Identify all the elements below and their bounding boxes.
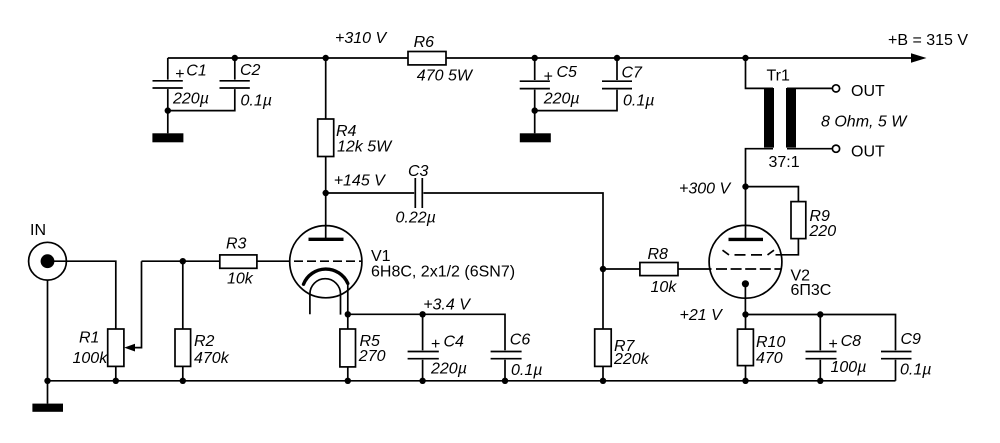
V2 beam plates / screen xyxy=(723,250,775,255)
capacitor C4 xyxy=(408,314,467,381)
capacitor C9 xyxy=(881,331,931,381)
resistor R5 xyxy=(340,329,386,367)
svg-text:10k: 10k xyxy=(651,279,678,296)
svg-text:8 Ohm, 5 W: 8 Ohm, 5 W xyxy=(821,114,908,131)
node OUT terminal bottom xyxy=(832,144,885,161)
node C6 rail junction xyxy=(502,378,508,384)
V1 plate xyxy=(309,238,344,241)
svg-text:OUT: OUT xyxy=(851,144,885,161)
svg-text:0.1µ: 0.1µ xyxy=(511,362,542,379)
capacitor C3 xyxy=(396,163,436,227)
transformer Tr1 xyxy=(764,67,800,171)
svg-text:+: + xyxy=(543,68,552,85)
wire rail to R4 xyxy=(325,58,327,119)
node +310 junction xyxy=(323,55,329,61)
wire R5 to bottom rail xyxy=(347,367,349,381)
node C8 junction xyxy=(817,311,823,317)
net 8 Ohm, 5 W xyxy=(821,114,908,131)
node C1/C2 junction xyxy=(165,107,171,113)
wire IN to bottom rail xyxy=(47,280,49,381)
resistor R3 xyxy=(220,235,257,287)
svg-text:+145 V: +145 V xyxy=(334,173,386,190)
wire cathode node to R5 xyxy=(347,314,349,329)
net +310 V xyxy=(335,30,387,47)
ground under C1 xyxy=(152,133,183,142)
svg-text:+B = 315 V: +B = 315 V xyxy=(888,32,968,49)
node V1 cathode junction xyxy=(345,297,472,318)
node +21 V xyxy=(680,307,749,324)
wire Tr1 secondary bottom to OUT xyxy=(787,148,832,150)
svg-text:R3: R3 xyxy=(226,235,247,252)
V1 heater xyxy=(310,279,341,315)
wire R9 to screen grid xyxy=(776,239,799,255)
wire grid node to V2 grid xyxy=(603,268,712,270)
resistor R9 xyxy=(791,202,836,240)
wire cathode node to C4/C6 xyxy=(348,314,505,350)
wire C5 to ground xyxy=(534,111,536,134)
svg-text:C6: C6 xyxy=(510,331,531,348)
wire V1 cathode lead xyxy=(347,283,349,314)
capacitor C2 xyxy=(168,55,272,111)
wire +300 node to V2 plate xyxy=(745,187,747,238)
wire R2 to bottom rail xyxy=(182,366,184,380)
wire grid node to R7 xyxy=(602,269,604,329)
svg-text:470 5W: 470 5W xyxy=(417,68,474,85)
wire wiper to R2 node xyxy=(142,260,183,262)
svg-text:C4: C4 xyxy=(444,333,465,350)
wire R7 to bottom rail xyxy=(602,366,604,380)
wire +21 node to R10 xyxy=(745,315,747,330)
tube V2 xyxy=(709,225,831,299)
node C8 rail junction xyxy=(817,378,823,384)
svg-text:220k: 220k xyxy=(613,351,650,368)
wire +300 node to R9 xyxy=(746,187,799,202)
svg-text:220: 220 xyxy=(808,223,836,240)
svg-text:+300 V: +300 V xyxy=(679,181,731,198)
svg-text:0.22µ: 0.22µ xyxy=(396,210,436,227)
svg-text:470: 470 xyxy=(756,350,783,367)
svg-text:+3.4 V: +3.4 V xyxy=(423,297,471,314)
svg-text:0.1µ: 0.1µ xyxy=(241,93,272,110)
svg-text:C2: C2 xyxy=(240,62,261,79)
wire top B+ rail xyxy=(168,57,912,59)
svg-text:V1: V1 xyxy=(371,248,391,265)
svg-text:+21 V: +21 V xyxy=(680,307,724,324)
node IN rail junction xyxy=(44,378,50,384)
potentiometer R1 xyxy=(73,329,124,367)
wire Tr1 secondary top to OUT xyxy=(787,87,832,89)
node R1 rail junction xyxy=(113,378,119,384)
node R2/R3 junction xyxy=(180,258,186,264)
node C4 rail junction xyxy=(419,378,425,384)
svg-text:C3: C3 xyxy=(408,163,429,180)
node +300 V xyxy=(679,181,749,198)
capacitor C5 xyxy=(520,55,580,111)
V1 grid (dashed) xyxy=(294,260,362,262)
svg-text:220µ: 220µ xyxy=(172,90,209,107)
node +145 V xyxy=(323,173,387,197)
V1 cathode arc xyxy=(304,269,348,284)
svg-text:10k: 10k xyxy=(227,270,254,287)
ground under C5 xyxy=(520,133,551,142)
connector IN xyxy=(29,222,67,280)
V2 plate xyxy=(729,238,764,241)
wire V2 cathode to +21 node xyxy=(744,284,746,315)
svg-text:R6: R6 xyxy=(414,34,435,51)
resistor R8 xyxy=(640,246,678,296)
svg-text:100µ: 100µ xyxy=(831,359,867,376)
svg-text:C7: C7 xyxy=(622,65,644,82)
wire bottom ground rail xyxy=(48,380,896,382)
svg-text:+310 V: +310 V xyxy=(335,30,387,47)
svg-text:+: + xyxy=(431,336,440,353)
tube V1 xyxy=(290,226,515,298)
node C4 junction xyxy=(419,311,425,317)
capacitor C7 xyxy=(535,55,655,111)
svg-text:100k: 100k xyxy=(73,350,109,367)
svg-text:IN: IN xyxy=(30,222,46,239)
capacitor C1 xyxy=(153,58,209,111)
svg-text:R4: R4 xyxy=(336,123,357,140)
node OUT terminal top xyxy=(832,83,885,100)
svg-text:220µ: 220µ xyxy=(430,360,467,377)
svg-text:C9: C9 xyxy=(901,331,922,348)
svg-text:OUT: OUT xyxy=(851,83,885,100)
svg-text:C5: C5 xyxy=(557,64,578,81)
node B+ arrow xyxy=(911,53,927,62)
capacitor C6 xyxy=(491,331,543,381)
svg-text:6H8C, 2x1/2 (6SN7): 6H8C, 2x1/2 (6SN7) xyxy=(371,264,515,281)
capacitor C8 xyxy=(806,315,867,381)
node C3/R7/R8 junction xyxy=(600,266,606,272)
svg-text:R2: R2 xyxy=(194,333,215,350)
svg-text:R10: R10 xyxy=(756,334,785,351)
wire rail to Tr1 primary top xyxy=(746,58,774,88)
wire C3 net: +145 node to grid node xyxy=(326,193,603,269)
svg-text:+: + xyxy=(175,66,184,83)
resistor R2 xyxy=(175,329,230,367)
svg-text:+: + xyxy=(828,336,837,353)
node R7 rail junction xyxy=(600,378,606,384)
svg-text:C8: C8 xyxy=(841,333,862,350)
net +B = 315 V xyxy=(888,32,968,49)
svg-text:12k 5W: 12k 5W xyxy=(337,139,393,156)
svg-text:C1: C1 xyxy=(186,63,206,80)
wire IN to R1 top xyxy=(48,261,116,329)
svg-text:R8: R8 xyxy=(648,246,669,263)
V2 control grid (dashed) xyxy=(716,268,782,270)
wire R10 to bottom rail xyxy=(745,366,747,381)
node R5 rail junction xyxy=(345,378,351,384)
ground bottom left xyxy=(32,404,63,412)
svg-text:470k: 470k xyxy=(194,350,230,367)
wire R1 to bottom rail xyxy=(115,366,117,380)
svg-text:0.1µ: 0.1µ xyxy=(623,93,654,110)
wire Tr1 primary bottom to +300 node xyxy=(746,149,774,187)
node C5/C7 junction xyxy=(532,107,538,113)
wire node to V1 grid xyxy=(183,260,290,262)
resistor R10 xyxy=(738,329,786,367)
svg-text:220µ: 220µ xyxy=(543,91,580,108)
node R10 rail junction xyxy=(742,378,748,384)
svg-text:R1: R1 xyxy=(79,330,99,347)
V2 cathode dot xyxy=(742,280,749,287)
wire +21 node to C8/C9 xyxy=(746,315,896,351)
node R2 rail junction xyxy=(180,378,186,384)
resistor R7 xyxy=(595,329,650,368)
R1 wiper arrow xyxy=(124,261,141,351)
node Tr1 rail junction xyxy=(742,55,748,61)
svg-text:270: 270 xyxy=(358,348,386,365)
wire V1 plate lead xyxy=(325,193,327,239)
wire node to R2 xyxy=(182,261,184,329)
svg-text:0.1µ: 0.1µ xyxy=(900,361,931,378)
svg-text:Tr1: Tr1 xyxy=(767,67,791,84)
svg-text:37:1: 37:1 xyxy=(769,154,800,171)
resistor R4 xyxy=(318,119,393,157)
wire C1 to ground xyxy=(167,111,169,134)
wire to bottom ground xyxy=(47,381,49,404)
resistor R6 xyxy=(408,34,474,85)
wire R4 to +145 node xyxy=(325,157,327,194)
svg-text:6П3С: 6П3С xyxy=(791,282,832,299)
